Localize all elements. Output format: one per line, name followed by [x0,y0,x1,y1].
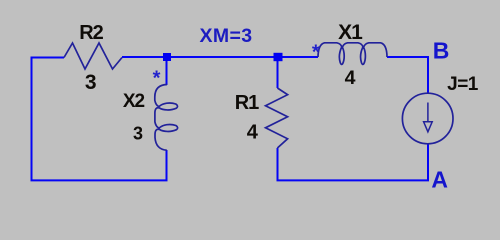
svg-text:B: B [433,38,450,64]
wire top bus from R2 to X1 [122,56,318,58]
resistor R1 (vertical zigzag) [266,88,288,148]
svg-text:X2: X2 [123,91,145,112]
polarity dot (asterisk) of X1 [312,41,320,63]
current source J1 (circle) [402,93,453,144]
current source arrow (downward) [424,103,433,132]
node A label [431,167,448,193]
polarity dot (asterisk) of X2 [153,68,161,90]
value 4 of X1 [345,67,356,89]
label R2 [79,22,103,44]
svg-text:4: 4 [345,67,356,89]
value 4 of R1 [247,121,259,143]
label J=1 [447,74,479,95]
label XM=3 (coupling) [199,25,252,47]
inductor X2 (vertical coil, loops to the right) [155,85,178,151]
resistor R2 (zigzag) [64,43,122,69]
svg-text:A: A [431,167,448,193]
node junction square at R1 tap [274,53,283,61]
svg-text:R2: R2 [79,22,103,44]
node B label [433,38,450,64]
svg-text:X1: X1 [338,21,363,44]
svg-text:4: 4 [247,121,259,143]
value 3 of R2 [85,71,97,94]
node junction square at X2 tap [163,53,171,61]
svg-text:R1: R1 [235,92,259,114]
wire top-right from X1 to node B corner [387,57,428,94]
label X1 [338,21,363,44]
svg-text:XM=3: XM=3 [199,25,252,47]
svg-text:3: 3 [133,123,143,143]
wire R1 top lead [277,57,279,88]
wire left loop (top-left, left side, bottom-left) [32,58,167,181]
label R1 [235,92,259,114]
wire bottom-right loop [278,144,429,181]
svg-text:*: * [312,41,320,63]
wire X2 top lead [166,57,168,85]
value 3 of X2 [133,123,143,143]
svg-text:*: * [153,68,161,90]
label X2 [123,91,145,112]
svg-text:J=1: J=1 [447,74,479,95]
svg-text:3: 3 [85,71,97,94]
inductor X1 (horizontal coil, loops hang down) [318,43,387,65]
